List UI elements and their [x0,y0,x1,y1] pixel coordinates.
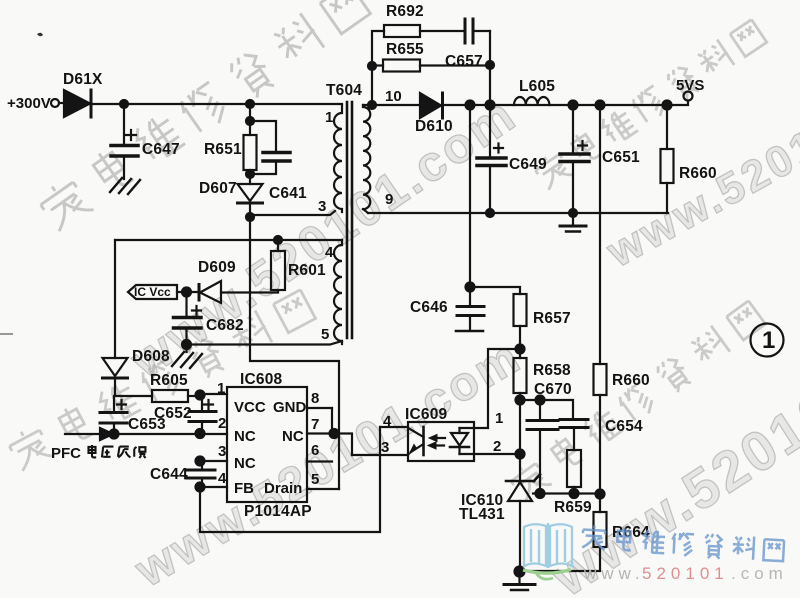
svg-text:C657: C657 [445,53,483,70]
svg-text:C670: C670 [534,381,572,398]
svg-text:4: 4 [383,413,392,430]
node R601 top [274,236,282,244]
shunt IC610 TL431 [506,475,540,573]
resistor R655 [372,60,490,72]
svg-text:R657: R657 [533,310,571,327]
watermark 家电维修资料网 right-middle diagonal [507,301,765,503]
wire primary rail [91,103,342,105]
transformer T604 secondary 10-9 [363,105,370,213]
svg-text:10: 10 [385,88,402,105]
frame line to pin4 [115,239,342,241]
node R651 top [246,100,254,108]
svg-text:D610: D610 [415,118,453,135]
capacitor C647 [111,104,138,179]
resistor R605 [114,390,200,402]
inductor L605 [514,97,549,105]
svg-text:6: 6 [311,442,319,459]
svg-text:C644: C644 [150,466,188,483]
diode D61X [64,90,91,117]
capacitor C653 [100,397,127,434]
svg-text:4: 4 [218,470,227,487]
IC608 pin1 lead [200,393,227,395]
svg-text:2: 2 [218,415,226,432]
svg-text:1: 1 [495,410,503,427]
circled 1 [751,324,784,357]
optocoupler IC609 box [408,422,474,461]
svg-text:PFC: PFC [51,445,81,462]
wire pin2 node [474,453,520,455]
svg-text:3: 3 [318,198,326,215]
svg-text:NC: NC [234,455,256,472]
ground at C647 [110,178,140,194]
svg-text:C647: C647 [142,141,180,158]
diode D607 [238,184,263,217]
wire opto pin3 [352,454,408,456]
resistor R651 [244,135,257,184]
logo url [583,564,788,583]
svg-text:C682: C682 [206,317,244,334]
node pin10 [368,101,376,109]
resistor R660 right-mid [594,364,607,494]
IC608 pin8-7 link [331,408,333,434]
ground at C682 [172,344,202,368]
node R657 bottom [516,345,525,354]
IC608 pin2 lead / PFC line [100,433,227,435]
svg-text:R655: R655 [386,41,424,58]
svg-text:FB: FB [234,480,254,497]
svg-text:TL431: TL431 [459,506,505,523]
svg-text:7: 7 [311,416,319,433]
opto phototransistor [409,427,424,455]
svg-text:D609: D609 [198,259,236,276]
node C682 bottom [182,340,191,349]
resistor R601 [271,240,285,292]
wire opto pin4 [380,426,408,428]
left column nodes [110,391,205,492]
svg-text:520101: 520101 [642,564,729,583]
nodes bottom divider [536,489,605,499]
svg-text:R651: R651 [204,141,242,158]
speck left edge [0,333,13,335]
wire pin2 to TL431 [519,454,521,481]
logo book icon [524,523,572,568]
capacitor C651 [560,105,589,213]
svg-text:2: 2 [493,438,501,455]
svg-text:L605: L605 [519,78,555,95]
node at C647 [120,100,128,108]
transformer T604 primary 4-5 [334,240,342,344]
transformer T604 primary 1-3 [334,105,342,212]
speck [37,33,43,37]
capacitor C682 [174,292,202,344]
node D607 bottom [246,213,254,221]
wire R660 column [599,105,601,364]
node R651 bottom [246,170,254,178]
IC608 pin7 stub [307,434,352,456]
svg-text:D608: D608 [132,348,170,365]
svg-text:C649: C649 [509,156,547,173]
svg-text:1: 1 [217,380,225,397]
IC608 pin4 lead [200,486,227,488]
terminal 5VS [684,92,693,101]
feedback loop left vertical [372,31,384,105]
IC608 pin8 stub [307,407,332,409]
wire divider top [520,400,573,419]
svg-text:+300V: +300V [7,95,51,112]
resistor R660 top-right [661,105,674,213]
capacitor C649 [477,105,506,213]
svg-text:R605: R605 [150,372,188,389]
rail bottom nodes [486,209,577,217]
wire to opto pin1 [474,349,520,428]
wire C657 drop [489,31,491,105]
transformer core [347,102,352,338]
resistor R664 [520,494,607,571]
svg-text:D607: D607 [199,180,237,197]
wire pin10 to D610 [363,104,420,106]
svg-text:VCC: VCC [234,399,266,416]
node C657 drop [486,61,494,69]
IC608 drain lead [307,488,339,490]
node pin7 [330,429,339,438]
resistor R658 [514,358,527,454]
node C646/R657 [466,283,475,292]
svg-text:9: 9 [385,191,393,208]
wire C646 feed [469,105,471,306]
node split R651/C641 [246,117,254,125]
svg-text:NC: NC [282,428,304,445]
svg-text:C653: C653 [128,416,166,433]
resistor R659 [567,450,581,493]
wire snubber to drain [250,217,339,489]
wire secondary rail [442,101,688,105]
svg-text:IC Vcc: IC Vcc [134,285,171,299]
node R655 left [368,62,376,70]
svg-text:4: 4 [325,244,334,261]
svg-text:5: 5 [311,471,319,488]
capacitor C652 [189,395,216,433]
svg-text:Drain: Drain [264,480,302,497]
opto LED [450,428,474,454]
PFC hanzi 电压反馈 [88,445,145,458]
watermark 家电维修资料网 bottom-left diagonal [6,290,316,473]
ground bottom [504,571,535,590]
svg-text:C641: C641 [269,185,307,202]
svg-text:3: 3 [381,439,389,456]
svg-text:R658: R658 [533,362,571,379]
svg-text:C654: C654 [605,418,643,435]
svg-text:NC: NC [234,428,256,445]
rail nodes [466,101,672,110]
bottom divider line [533,492,600,494]
svg-text:5VS: 5VS [676,77,704,94]
capacitor C670 [527,400,558,493]
svg-text:C646: C646 [410,299,448,316]
svg-text:T604: T604 [326,82,362,99]
svg-text:8: 8 [311,390,319,407]
capacitor C644 [186,461,215,487]
logo hanzi 家电维修资料网 [582,525,784,561]
watermark 家电维修资料网 top-left diagonal [36,0,371,233]
svg-text:1: 1 [762,327,775,354]
tag IC Vcc [128,285,199,299]
resistor R692 [384,25,465,37]
IC608 pin3 lead [200,460,227,462]
ground at C651 [560,213,586,232]
capacitor C654 [560,420,588,451]
svg-text:5: 5 [321,326,329,343]
node C682 tap [182,288,191,297]
opto light arrows [428,435,445,450]
wire pin5 line [187,341,343,345]
terminal +300V [51,99,64,107]
secondary bottom rail [368,212,668,214]
node TL431 anode [515,567,525,577]
wire to T604 pin3 [250,211,335,215]
svg-text:3: 3 [218,443,226,460]
wire R651 drop [249,104,251,135]
svg-text:R660: R660 [679,165,717,182]
svg-text:.com: .com [731,564,788,583]
svg-text:www.: www. [583,564,645,583]
capacitor C641 [250,121,290,174]
svg-text:IC609: IC609 [405,406,448,423]
svg-text:IC608: IC608 [240,371,283,388]
svg-text:R692: R692 [386,3,424,20]
IC608 box [227,387,307,502]
svg-text:D61X: D61X [63,71,103,88]
watermark 家电维修资料网 top-right diagonal [532,20,767,192]
svg-text:GND: GND [273,399,307,416]
capacitor C657 [465,19,490,43]
logo green swoosh [523,570,571,580]
svg-text:C651: C651 [602,149,640,166]
svg-text:R601: R601 [288,262,326,279]
svg-text:R660: R660 [612,372,650,389]
wire pin4 FB loop [200,427,380,532]
diode D609 [199,281,278,303]
node C670 top [536,396,545,405]
node pin2 [516,450,525,459]
IC608 pin6 stub [307,460,332,462]
PFC arrow [65,428,113,440]
svg-text:P1014AP: P1014AP [244,503,312,520]
resistor R657 [470,287,527,358]
node divider [516,396,525,405]
svg-text:R659: R659 [554,499,592,516]
diode D608 [103,240,128,396]
capacitor C646 [456,307,484,332]
svg-text:1: 1 [325,109,333,126]
diode D610 [420,93,443,118]
